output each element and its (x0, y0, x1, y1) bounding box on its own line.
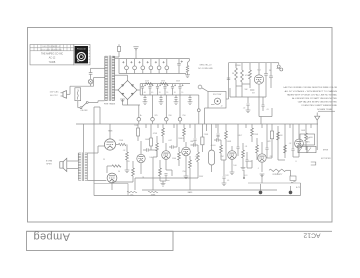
right section rail 2 (284, 124, 286, 158)
svg-text:X DENOTES 3 WATT WIREWOUND: X DENOTES 3 WATT WIREWOUND (301, 104, 337, 107)
amplifier inner bottom bus (142, 189, 277, 191)
screen supply bus (140, 94, 192, 96)
phone jack triangle (315, 116, 320, 120)
power stage ground (125, 169, 130, 171)
oscillator interior stub b (250, 89, 254, 91)
svg-text:1500: 1500 (172, 158, 176, 160)
mid stub 244 (243, 170, 245, 178)
treble control label (148, 191, 158, 193)
coupling capacitor phase inverter (146, 148, 148, 152)
svg-text:visu: visu (166, 180, 169, 182)
svg-text:10: 10 (181, 92, 183, 94)
wire treble drop (153, 156, 157, 158)
svg-text:ALL DC VOLTAGES + WITH RESPECT: ALL DC VOLTAGES + WITH RESPECT TO CHASSI… (285, 90, 338, 93)
svg-text:40: 40 (144, 92, 146, 94)
svg-text:EXT SPKR: EXT SPKR (321, 158, 331, 160)
svg-text:TAKEN WITH VTVM AT 117V AC LIN: TAKEN WITH VTVM AT 117V AC LINE NO SIGNA… (287, 93, 338, 96)
svg-text:100K: 100K (145, 139, 150, 141)
tone resistor 3 (242, 150, 245, 158)
oscillator bottom bus (230, 96, 266, 98)
bridge rectifier diamond (118, 81, 137, 100)
power transformer T1 core (108, 56, 110, 102)
filter resistor 1 (146, 83, 153, 85)
svg-text:7100B: 7100B (49, 62, 56, 64)
tube heater pilot circle 1 (125, 66, 129, 70)
speaker jack box 2 (307, 146, 316, 152)
mid cap to ground 224 (223, 160, 225, 176)
RCA connector plug (277, 65, 280, 68)
wire rectifier bottom to ground bus (127, 100, 129, 106)
svg-text:.02: .02 (123, 150, 126, 152)
wire primary bottom to power tube V4 (87, 180, 106, 182)
capacitor across line (89, 72, 93, 74)
tube heater pilot circle 5 (157, 66, 161, 70)
schematic sheet border frame (28, 28, 333, 223)
oscillator bottom cap right (262, 104, 265, 106)
svg-text:1M: 1M (280, 135, 283, 137)
svg-text:100K: 100K (301, 130, 306, 132)
foot jack right (290, 176, 296, 181)
svg-text:AC12: AC12 (303, 231, 320, 238)
wire fuse to switch (77, 101, 79, 108)
svg-text:ON-OFF: ON-OFF (80, 110, 88, 112)
footswitch box (208, 92, 226, 109)
wire node junction to amp bus (198, 118, 200, 124)
tone stack resistor 2 (225, 131, 228, 139)
extra rail 207 (206, 124, 208, 131)
svg-text:LAST NO IN WIRE CODING DENOTES: LAST NO IN WIRE CODING DENOTES WIRE COLO… (283, 86, 337, 89)
svg-text:SPEED: SPEED (235, 65, 242, 67)
preamp stage1 ground (161, 183, 166, 185)
tremolo mod resistor 2 (256, 145, 259, 153)
svg-text:THE AMPEG CO INC: THE AMPEG CO INC (41, 53, 63, 56)
svg-text:100: 100 (233, 165, 236, 167)
tremolo mod tube V6a (258, 154, 266, 162)
svg-text:INT: INT (252, 92, 255, 94)
svg-text:SCHEM 7100B: SCHEM 7100B (317, 109, 332, 111)
tone cap 3 (246, 159, 249, 161)
wire heater left drop (118, 59, 120, 74)
wire lamp to line bus (90, 84, 92, 86)
wire modulator link (267, 157, 272, 159)
tone stack cap 2 (237, 146, 240, 148)
svg-text:40-40: 40-40 (211, 145, 216, 147)
notes underline (318, 110, 335, 112)
wire intensity to rail (286, 169, 291, 171)
oscillator resistor R3 (249, 70, 252, 79)
preamp stage1 coupling cap (171, 145, 173, 149)
svg-text:Penncraft: Penncraft (77, 47, 86, 50)
oscillator bottom right edge (258, 97, 260, 117)
oscillator capacitor right (264, 73, 268, 75)
fuse F1 box (75, 88, 81, 101)
power tube V4 (107, 173, 117, 183)
svg-text:270: 270 (126, 161, 129, 163)
oscillator interior stub c (242, 83, 250, 85)
svg-text:115 V AC: 115 V AC (49, 91, 58, 94)
decoupling capacitor C7 (143, 97, 146, 99)
svg-text:470K: 470K (153, 133, 158, 135)
svg-text:250: 250 (182, 171, 185, 173)
tube heater pilot circle 3 (141, 66, 145, 70)
svg-text:A T1: A T1 (296, 186, 300, 189)
speaker symbol (60, 162, 63, 168)
output transformer T2 primary winding (85, 152, 88, 154)
svg-text:500: 500 (248, 161, 251, 163)
svg-text:250K: 250K (204, 134, 209, 136)
B+ junction node (197, 109, 200, 112)
svg-text:CAP VALUES IN MFD UNLESS NOTED: CAP VALUES IN MFD UNLESS NOTED (298, 101, 338, 104)
title block header cell dividers (33, 45, 35, 51)
oscillator capacitor far right (269, 75, 273, 77)
wire phase inverter to power tube V4 (112, 181, 133, 183)
volume pot (197, 152, 200, 162)
svg-text:GRN-YEL-LO: GRN-YEL-LO (199, 65, 212, 67)
svg-text:.047: .047 (168, 140, 172, 142)
tone stack resistor 1 (220, 145, 223, 153)
svg-text:.05: .05 (195, 156, 198, 158)
preamp stage2 tube V1b (182, 147, 191, 156)
preamp stage1 plate resistor (162, 128, 165, 136)
title block outer right extension (74, 45, 90, 65)
svg-text:ALL RESISTORS 1/2 WATT UNLESS: ALL RESISTORS 1/2 WATT UNLESS NOTED (292, 97, 337, 100)
wire secondary to heater string (115, 58, 119, 60)
tube heater pilot circle 2 (133, 66, 137, 70)
phase inverter tube V2b (137, 154, 145, 162)
wire rectifier output right (137, 89, 140, 91)
preamp stage2 coupling cap (193, 143, 195, 147)
intensity pot (269, 169, 286, 171)
AC line plug (63, 91, 67, 99)
output transformer T2 secondary winding (78, 152, 81, 154)
bottom rule line (27, 230, 333, 232)
preamp stage2 ground (184, 175, 189, 177)
heater ground (185, 74, 190, 76)
extra rail 195 cap (194, 138, 197, 140)
boxed resistor right (270, 131, 273, 139)
title block header row lines (30, 47, 74, 49)
extra rail 218 cap (217, 133, 220, 135)
footswitch jack terminal (198, 85, 202, 89)
power transformer T1 primary winding (105, 55, 108, 57)
logo black square (75, 46, 88, 63)
wire triangle down (316, 120, 318, 150)
decoupling capacitor C10 (188, 97, 191, 99)
svg-text:VOL: VOL (130, 195, 133, 197)
power tube V3 (104, 139, 115, 150)
B+ terminal node 3 (165, 118, 169, 122)
svg-text:PWR TRANS: PWR TRANS (104, 102, 116, 105)
preamp stage1 cathode resistor (159, 168, 162, 176)
B+ terminal node 1 (137, 118, 141, 122)
B+ terminal node 4 (178, 118, 182, 122)
right tube V7 (295, 139, 304, 148)
treble cap (216, 138, 218, 142)
tone stack tube V2a (228, 151, 237, 160)
pilot lamp I1 (88, 79, 93, 84)
heater bus bottom wire (119, 73, 186, 75)
bottom left corner box (94, 183, 128, 185)
decoupling capacitor C8 (159, 97, 162, 99)
svg-text:8: 8 (295, 161, 296, 163)
heater bus top wire (119, 58, 190, 60)
preamp stage2 grid resistor (178, 152, 181, 160)
extra top-bus drops (145, 124, 147, 128)
wire right link b (293, 156, 299, 158)
svg-text:310: 310 (168, 115, 171, 117)
amplifier left rail (93, 124, 95, 196)
oscillator coupling capacitor (227, 77, 230, 79)
phase inverter plate resistor (137, 128, 140, 136)
B+ filter bus (140, 83, 190, 85)
wire output transformer center tap to B+ bus (82, 124, 84, 152)
svg-text:325: 325 (154, 115, 157, 117)
output network box (300, 134, 315, 145)
footswitch jack circle (214, 98, 220, 104)
svg-text:8 OHM: 8 OHM (46, 161, 53, 163)
wire transformer to rectifier left (115, 89, 118, 91)
Ampeg name box (27, 231, 174, 250)
svg-text:.02: .02 (289, 143, 292, 145)
svg-text:220K: 220K (119, 140, 124, 142)
jack symbol below (311, 162, 316, 165)
svg-text:.05: .05 (266, 109, 269, 111)
footswitch inner mark (211, 104, 215, 106)
svg-text:7199: 7199 (134, 125, 138, 127)
filter capacitor C3 (156, 85, 159, 87)
extra rail 195 (194, 124, 196, 138)
svg-text:CHKD TOLERANCE +/-: CHKD TOLERANCE +/- (42, 45, 60, 48)
svg-text:25: 25 (103, 159, 105, 161)
svg-text:220K: 220K (254, 134, 259, 136)
feedback resistor (112, 165, 121, 167)
svg-text:.01: .01 (245, 146, 248, 148)
oscillator interior stub a (236, 85, 242, 87)
wire stage1 to stage2 (152, 149, 157, 151)
bottom section divider (248, 182, 301, 184)
heater balance resistor (186, 66, 188, 73)
right section rail 1 (277, 126, 279, 160)
wire speaker to output transformer (67, 160, 79, 162)
svg-text:40: 40 (151, 92, 153, 94)
filter capacitor C4 (163, 85, 166, 87)
amplifier top bus (76, 123, 318, 125)
oscillator tube V5 (254, 75, 263, 84)
logo emblem horn notch (77, 60, 79, 62)
tube heater pilot circle 4 (149, 66, 153, 70)
oscillator resistor R2 (241, 70, 244, 82)
svg-text:Ampeg: Ampeg (33, 231, 70, 243)
heater feed rail down to amp (93, 107, 95, 124)
svg-text:60 CYC: 60 CYC (50, 95, 58, 97)
B+ terminal node 2 (151, 118, 155, 122)
svg-text:INTENSITY: INTENSITY (273, 174, 284, 176)
wire mid link b (221, 159, 226, 161)
svg-text:6C4: 6C4 (257, 70, 260, 72)
tremolo mod cap (266, 147, 269, 149)
tube heater pilot circle 6 (165, 66, 169, 70)
preamp stage1 tall resistor (156, 143, 159, 151)
preamp stage1 cathode cap (165, 173, 168, 175)
filter capacitor C1 (141, 85, 144, 87)
svg-text:6SL7: 6SL7 (238, 135, 242, 137)
screen resistor power tubes (119, 143, 127, 145)
wire intensity drop (261, 174, 263, 183)
logo right edge tick marks (88, 47, 91, 49)
svg-text:250: 250 (182, 115, 185, 117)
svg-text:J2: J2 (221, 105, 223, 107)
power switch SW1 (82, 103, 87, 108)
tremolo mod ground (260, 173, 265, 175)
svg-text:350V: 350V (199, 176, 204, 178)
title block outline (30, 45, 74, 65)
logo white emblem inner ring (79, 55, 83, 59)
svg-text:CHAN: CHAN (304, 141, 310, 144)
oscillator ground drop (247, 97, 249, 103)
right resistor 3 (305, 133, 308, 141)
speaker jack box 1 (298, 146, 307, 152)
wire stage2 output (197, 144, 199, 146)
ground bus under rectifier (123, 104, 141, 106)
phase inverter cathode resistor (132, 168, 135, 176)
bottom terminal dot A (259, 191, 263, 195)
decoupling capacitor C9 (174, 97, 177, 99)
svg-text:NO CONN GND: NO CONN GND (198, 68, 213, 70)
wire line bus to transformer primary (93, 78, 95, 87)
tall dropping resistor box 1 (201, 137, 204, 145)
output transformer T2 core (81, 152, 83, 181)
wire oscillator to RCA connector (273, 62, 279, 64)
fuse F1 element (76, 90, 79, 100)
wire tone to modulator (247, 167, 252, 169)
wire plug to fuse (67, 93, 71, 95)
grid resistor phase inverter (150, 138, 153, 146)
wire right link a (278, 159, 285, 161)
filter resistor 2 (161, 83, 168, 85)
bridge rectifier diode arrows (122, 85, 124, 87)
volume control label (127, 191, 137, 193)
svg-text:6.3: 6.3 (245, 175, 248, 177)
filter capacitor C5 (171, 85, 174, 87)
svg-text:FOOT SW: FOOT SW (213, 94, 222, 96)
tremolo mod resistor 1 (251, 128, 254, 136)
filter can capacitor (209, 150, 215, 165)
preamp stage2 cathode resistor (189, 160, 192, 168)
preamp stage2 vertical rail (176, 124, 178, 147)
filter capacitor C2 (148, 85, 151, 87)
svg-text:500K: 500K (227, 141, 232, 143)
heater bypass capacitor (177, 62, 180, 64)
stage3 ground b (241, 167, 246, 169)
oscillator left rail (228, 63, 230, 99)
wire primary top to power tube V3 (87, 152, 98, 154)
bias feed rail (204, 108, 206, 124)
filter capacitor C6 (178, 85, 181, 87)
right resistor 2 (284, 145, 287, 153)
extra rail 218 (217, 124, 219, 133)
wire terminal to footswitch (202, 88, 208, 92)
cathode resistor power stage (126, 152, 129, 160)
wire footswitch to oscillator (226, 98, 229, 100)
right resistor 1 (277, 132, 280, 140)
oscillator top bus (229, 62, 273, 64)
svg-text:.05: .05 (227, 180, 229, 182)
right cap 1 (292, 148, 295, 150)
bottom terminal dot B (289, 191, 293, 195)
svg-text:.02: .02 (243, 108, 246, 110)
oscillator bottom cap left (247, 103, 250, 105)
svg-text:SPKR: SPKR (46, 164, 52, 166)
svg-text:40: 40 (159, 172, 161, 174)
svg-text:SPKR: SPKR (323, 150, 329, 152)
svg-text:6V6: 6V6 (309, 137, 312, 139)
preamp stage1 tube V1a (162, 151, 171, 160)
wire vol drop (197, 172, 199, 178)
svg-text:1MEG: 1MEG (178, 138, 184, 140)
logo white emblem outer ring (77, 53, 85, 61)
svg-text:10: 10 (174, 92, 176, 94)
chassis ground above heater string (135, 50, 137, 59)
HV fuse at transformer top (113, 56, 119, 58)
svg-text:50: 50 (118, 171, 120, 173)
svg-text:20: 20 (159, 92, 161, 94)
svg-text:AC-12: AC-12 (49, 57, 56, 60)
svg-text:20: 20 (166, 92, 168, 94)
preamp stage2 plate resistor (183, 128, 186, 136)
wire transformer to rectifier top (115, 74, 128, 76)
oscillator resistor R1 (235, 68, 238, 80)
svg-text:.1: .1 (257, 168, 259, 170)
stage3 ground a (230, 171, 235, 173)
power transformer T1 secondary winding (112, 55, 115, 57)
wire bass drop (189, 174, 191, 190)
amplifier bottom bus (94, 195, 301, 197)
wire oscillator to amp bus (260, 117, 262, 125)
svg-text:DR BY DATE DIMENSIONS: DR BY DATE DIMENSIONS (40, 48, 62, 51)
wire mid link a (166, 169, 172, 171)
